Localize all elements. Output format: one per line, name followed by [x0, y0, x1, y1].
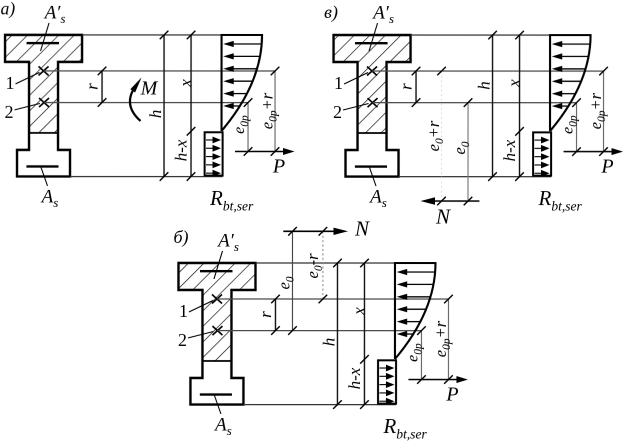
dimension line e0 (fig b) — [288, 227, 297, 335]
label M (fig a) — [140, 77, 159, 99]
dimension line h (fig v) — [488, 31, 497, 181]
label e0p (fig b) — [404, 343, 424, 362]
label r (fig v) — [396, 83, 415, 90]
dimension tick — [98, 98, 107, 107]
svg-text:e0p+r: e0p+r — [431, 320, 453, 357]
top reinforcement bar A's (fig b) — [200, 270, 233, 272]
leader to A's bar (fig v) — [369, 23, 378, 51]
top edge extension line (fig a) — [82, 34, 262, 36]
svg-text:2: 2 — [5, 102, 14, 122]
dimension tick — [319, 227, 328, 236]
tension stress arrows (fig a) — [206, 137, 221, 177]
label 2 (fig v) — [333, 102, 342, 122]
dimension tick — [333, 259, 342, 268]
label e0p (fig v) — [559, 115, 579, 134]
dimension tick — [360, 259, 369, 268]
svg-text:r: r — [396, 83, 415, 90]
compression stress arrows (fig a) — [223, 41, 261, 109]
svg-text:а): а) — [1, 0, 16, 18]
dimension tick — [488, 172, 497, 181]
label As (fig v) — [368, 187, 387, 211]
leader to A's bar (fig b) — [214, 251, 223, 279]
label N (fig b) — [354, 217, 370, 241]
dimension tick — [333, 400, 342, 409]
label e0p+r (fig a) — [258, 92, 280, 129]
dimension tick — [160, 172, 169, 181]
label h-x (fig a) — [171, 139, 190, 161]
leader to As bar (fig v) — [370, 168, 377, 187]
hatch boundary line in web (fig b) — [202, 360, 231, 362]
level line through point 1 (fig b) — [217, 298, 449, 300]
centroid point 2 cross mark (fig a) — [39, 98, 49, 107]
dimension line h (fig a) — [160, 31, 169, 181]
label P (fig v) — [600, 155, 613, 177]
kern point 1 cross mark (fig a) — [39, 66, 49, 75]
dimension tick — [444, 375, 453, 384]
svg-text:P: P — [445, 383, 458, 405]
top edge extension line (fig b) — [255, 262, 435, 264]
label A's (fig b) — [216, 230, 239, 254]
centroid point 2 cross mark (fig b) — [212, 326, 222, 335]
label e0p+r (fig v) — [586, 92, 608, 129]
dimension line x and h-x (fig v) — [515, 31, 524, 181]
tension stress block R_bt,ser (fig a) — [205, 132, 223, 175]
dimension line x and h-x (fig a) — [187, 31, 196, 181]
bottom reinforcement bar As (fig b) — [200, 393, 232, 395]
dimension tick — [572, 147, 581, 156]
dimension tick — [98, 67, 107, 76]
label h-x (fig b) — [345, 367, 364, 389]
level line through point 2 (fig a) — [44, 102, 248, 104]
dimension line e0p (fig a) — [244, 98, 253, 156]
svg-text:h-x: h-x — [345, 367, 364, 389]
dimension line r (fig a) — [98, 67, 107, 107]
leader from 1 to point (fig a) — [16, 72, 40, 84]
leader from 1 to point (fig v) — [344, 73, 368, 85]
svg-text:r: r — [82, 83, 101, 90]
axial force N arrow (fig v) — [421, 197, 480, 204]
svg-text:в): в) — [324, 2, 338, 23]
tension stress block R_bt,ser (fig v) — [533, 132, 551, 175]
svg-text:h: h — [319, 338, 338, 347]
svg-text:N: N — [435, 205, 451, 229]
dimension tick — [437, 67, 446, 76]
label 1 (fig a) — [6, 73, 15, 93]
svg-text:1: 1 — [179, 301, 188, 321]
dimension tick — [417, 326, 426, 335]
dimension line e0p+r (fig b) — [444, 295, 453, 384]
dimension tick — [515, 127, 524, 136]
dimension line e0-r (fig b) — [319, 227, 328, 303]
label P (fig a) — [272, 155, 285, 177]
leader to As bar (fig a) — [41, 167, 48, 186]
prestressing force P arrow (fig b) — [408, 376, 468, 383]
dimension tick — [271, 67, 280, 76]
dimension line r (fig v) — [412, 67, 421, 107]
label e0 (fig v) — [450, 141, 472, 154]
kern point 1 cross mark (fig v) — [367, 67, 377, 76]
leader to As bar (fig b) — [214, 395, 221, 414]
svg-text:h-x: h-x — [500, 139, 519, 161]
leader from 2 to point (fig b) — [188, 331, 214, 338]
dimension tick — [412, 67, 421, 76]
sub-figure label v) — [324, 2, 338, 23]
label 2 (fig a) — [5, 102, 14, 122]
compression stress arrows (fig v) — [552, 41, 590, 109]
label As (fig a) — [40, 186, 59, 210]
dimension tick — [187, 127, 196, 136]
compression stress diagram outline (fig v) — [550, 35, 591, 131]
sub-figure label a) — [1, 0, 16, 18]
svg-text:h: h — [474, 81, 493, 90]
dimension line x and h-x (fig b) — [360, 259, 369, 409]
dimension tick — [412, 98, 421, 107]
label x (fig a) — [176, 79, 195, 88]
label As (fig b) — [213, 414, 232, 438]
dimension tick — [515, 31, 524, 40]
svg-text:h-x: h-x — [171, 139, 190, 161]
label N (fig v) — [435, 205, 451, 229]
leader from 2 to point (fig v) — [343, 104, 369, 111]
svg-text:h: h — [146, 110, 165, 119]
svg-text:r: r — [256, 311, 275, 318]
svg-text:2: 2 — [178, 330, 187, 350]
hatch boundary line in web (fig v) — [358, 132, 387, 134]
compression stress arrows (fig b) — [397, 269, 435, 337]
svg-text:P: P — [272, 155, 285, 177]
label P (fig b) — [445, 383, 458, 405]
svg-text:x: x — [176, 79, 195, 88]
dimension tick — [160, 31, 169, 40]
leader from 1 to point (fig b) — [189, 300, 213, 312]
label h-x (fig v) — [500, 139, 519, 161]
top reinforcement bar A's (fig a) — [27, 42, 60, 44]
concrete T-section outline (fig b) — [178, 263, 255, 405]
dimension tick — [464, 197, 473, 206]
dimension line e0+r (fig v) — [437, 67, 446, 206]
dimension tick — [271, 295, 280, 304]
kern point 1 cross mark (fig b) — [212, 294, 222, 303]
prestressing force P arrow (fig v) — [564, 148, 624, 155]
label A's (fig a) — [43, 2, 66, 26]
label R_bt,ser (fig b) — [382, 414, 427, 442]
dimension tick — [464, 98, 473, 107]
top reinforcement bar A's (fig v) — [355, 42, 388, 44]
svg-text:N: N — [354, 217, 370, 241]
dimension tick — [271, 147, 280, 156]
axial force N arrow (fig b) — [283, 228, 348, 235]
dimension tick — [417, 375, 426, 384]
dimension tick — [360, 400, 369, 409]
label e0 (fig b) — [275, 276, 297, 289]
leader from 2 to point (fig a) — [15, 103, 41, 110]
dimension line e0p (fig b) — [417, 326, 426, 384]
bottom edge extension line (fig a) — [70, 176, 223, 178]
svg-text:M: M — [140, 77, 159, 99]
svg-text:e0+r: e0+r — [424, 120, 446, 151]
level line through point 1 (fig a) — [44, 70, 276, 72]
svg-text:e0-r: e0-r — [303, 253, 325, 279]
top edge extension line (fig v) — [411, 34, 591, 36]
dimension line e0p+r (fig v) — [599, 67, 608, 156]
dimension tick — [187, 172, 196, 181]
label e0-r (fig b) — [303, 253, 325, 279]
label 1 (fig v) — [334, 73, 343, 93]
label R_bt,ser (fig v) — [538, 186, 583, 214]
svg-text:x: x — [504, 79, 523, 88]
dimension tick — [288, 326, 297, 335]
dimension tick — [360, 355, 369, 364]
dimension tick — [244, 98, 253, 107]
dimension tick — [444, 295, 453, 304]
label x (fig b) — [349, 307, 368, 316]
compression stress diagram outline (fig b) — [395, 263, 436, 359]
concrete T-section hatched areas (fig a) — [5, 35, 82, 133]
svg-text:P: P — [600, 155, 613, 177]
label r (fig a) — [82, 83, 101, 90]
tension stress arrows (fig b) — [379, 365, 394, 405]
label h (fig a) — [146, 110, 165, 119]
dimension tick — [437, 197, 446, 206]
dimension tick — [288, 227, 297, 236]
concrete T-section outline (fig a) — [5, 35, 82, 177]
label R_bt,ser (fig a) — [209, 186, 254, 214]
concrete T-section hatched areas (fig b) — [178, 263, 255, 361]
label 1 (fig b) — [179, 301, 188, 321]
label r (fig b) — [256, 311, 275, 318]
level line through point 1 (fig v) — [372, 70, 604, 72]
level line through point 2 (fig b) — [217, 330, 421, 332]
dimension tick — [599, 147, 608, 156]
svg-text:1: 1 — [334, 73, 343, 93]
dimension tick — [187, 31, 196, 40]
svg-text:1: 1 — [6, 73, 15, 93]
label h (fig b) — [319, 338, 338, 347]
hatch boundary line in web (fig a) — [29, 132, 58, 134]
bottom edge extension line (fig v) — [399, 176, 552, 178]
leader to A's bar (fig a) — [41, 23, 50, 51]
svg-text:x: x — [349, 307, 368, 316]
svg-text:б): б) — [173, 227, 188, 248]
prestressing force P arrow (fig a) — [235, 148, 295, 155]
label h (fig v) — [474, 81, 493, 90]
bottom reinforcement bar As (fig a) — [26, 165, 58, 167]
bottom reinforcement bar As (fig v) — [355, 165, 387, 167]
label x (fig v) — [504, 79, 523, 88]
compression stress diagram outline (fig a) — [222, 35, 263, 131]
dimension line h (fig b) — [333, 259, 342, 409]
dimension tick — [488, 31, 497, 40]
concrete T-section hatched areas (fig v) — [334, 35, 411, 133]
dimension line e0 (fig v) — [464, 98, 473, 205]
label e0p+r (fig b) — [431, 320, 453, 357]
centroid point 2 cross mark (fig v) — [368, 98, 378, 107]
dimension line e0p+r (fig a) — [271, 67, 280, 156]
dimension tick — [244, 147, 253, 156]
bottom edge extension line (fig b) — [243, 404, 396, 406]
dimension line e0p (fig v) — [572, 98, 581, 156]
dimension tick — [319, 295, 328, 304]
tension stress block R_bt,ser (fig b) — [378, 360, 396, 403]
dimension line r (fig b) — [271, 295, 280, 335]
label 2 (fig b) — [178, 330, 187, 350]
dimension tick — [599, 67, 608, 76]
label e0p (fig a) — [231, 115, 251, 134]
svg-text:2: 2 — [333, 102, 342, 122]
dimension tick — [271, 326, 280, 335]
dimension tick — [572, 98, 581, 107]
dimension tick — [515, 172, 524, 181]
svg-text:e0p+r: e0p+r — [586, 92, 608, 129]
tension stress arrows (fig v) — [535, 137, 550, 177]
moment M curved arrow (fig a) — [130, 77, 142, 121]
label A's (fig v) — [371, 3, 394, 27]
concrete T-section outline (fig v) — [334, 35, 411, 177]
sub-figure label b) — [173, 227, 188, 248]
svg-text:e0p+r: e0p+r — [258, 92, 280, 129]
label e0+r (fig v) — [424, 120, 446, 151]
level line through point 2 (fig v) — [373, 102, 577, 104]
